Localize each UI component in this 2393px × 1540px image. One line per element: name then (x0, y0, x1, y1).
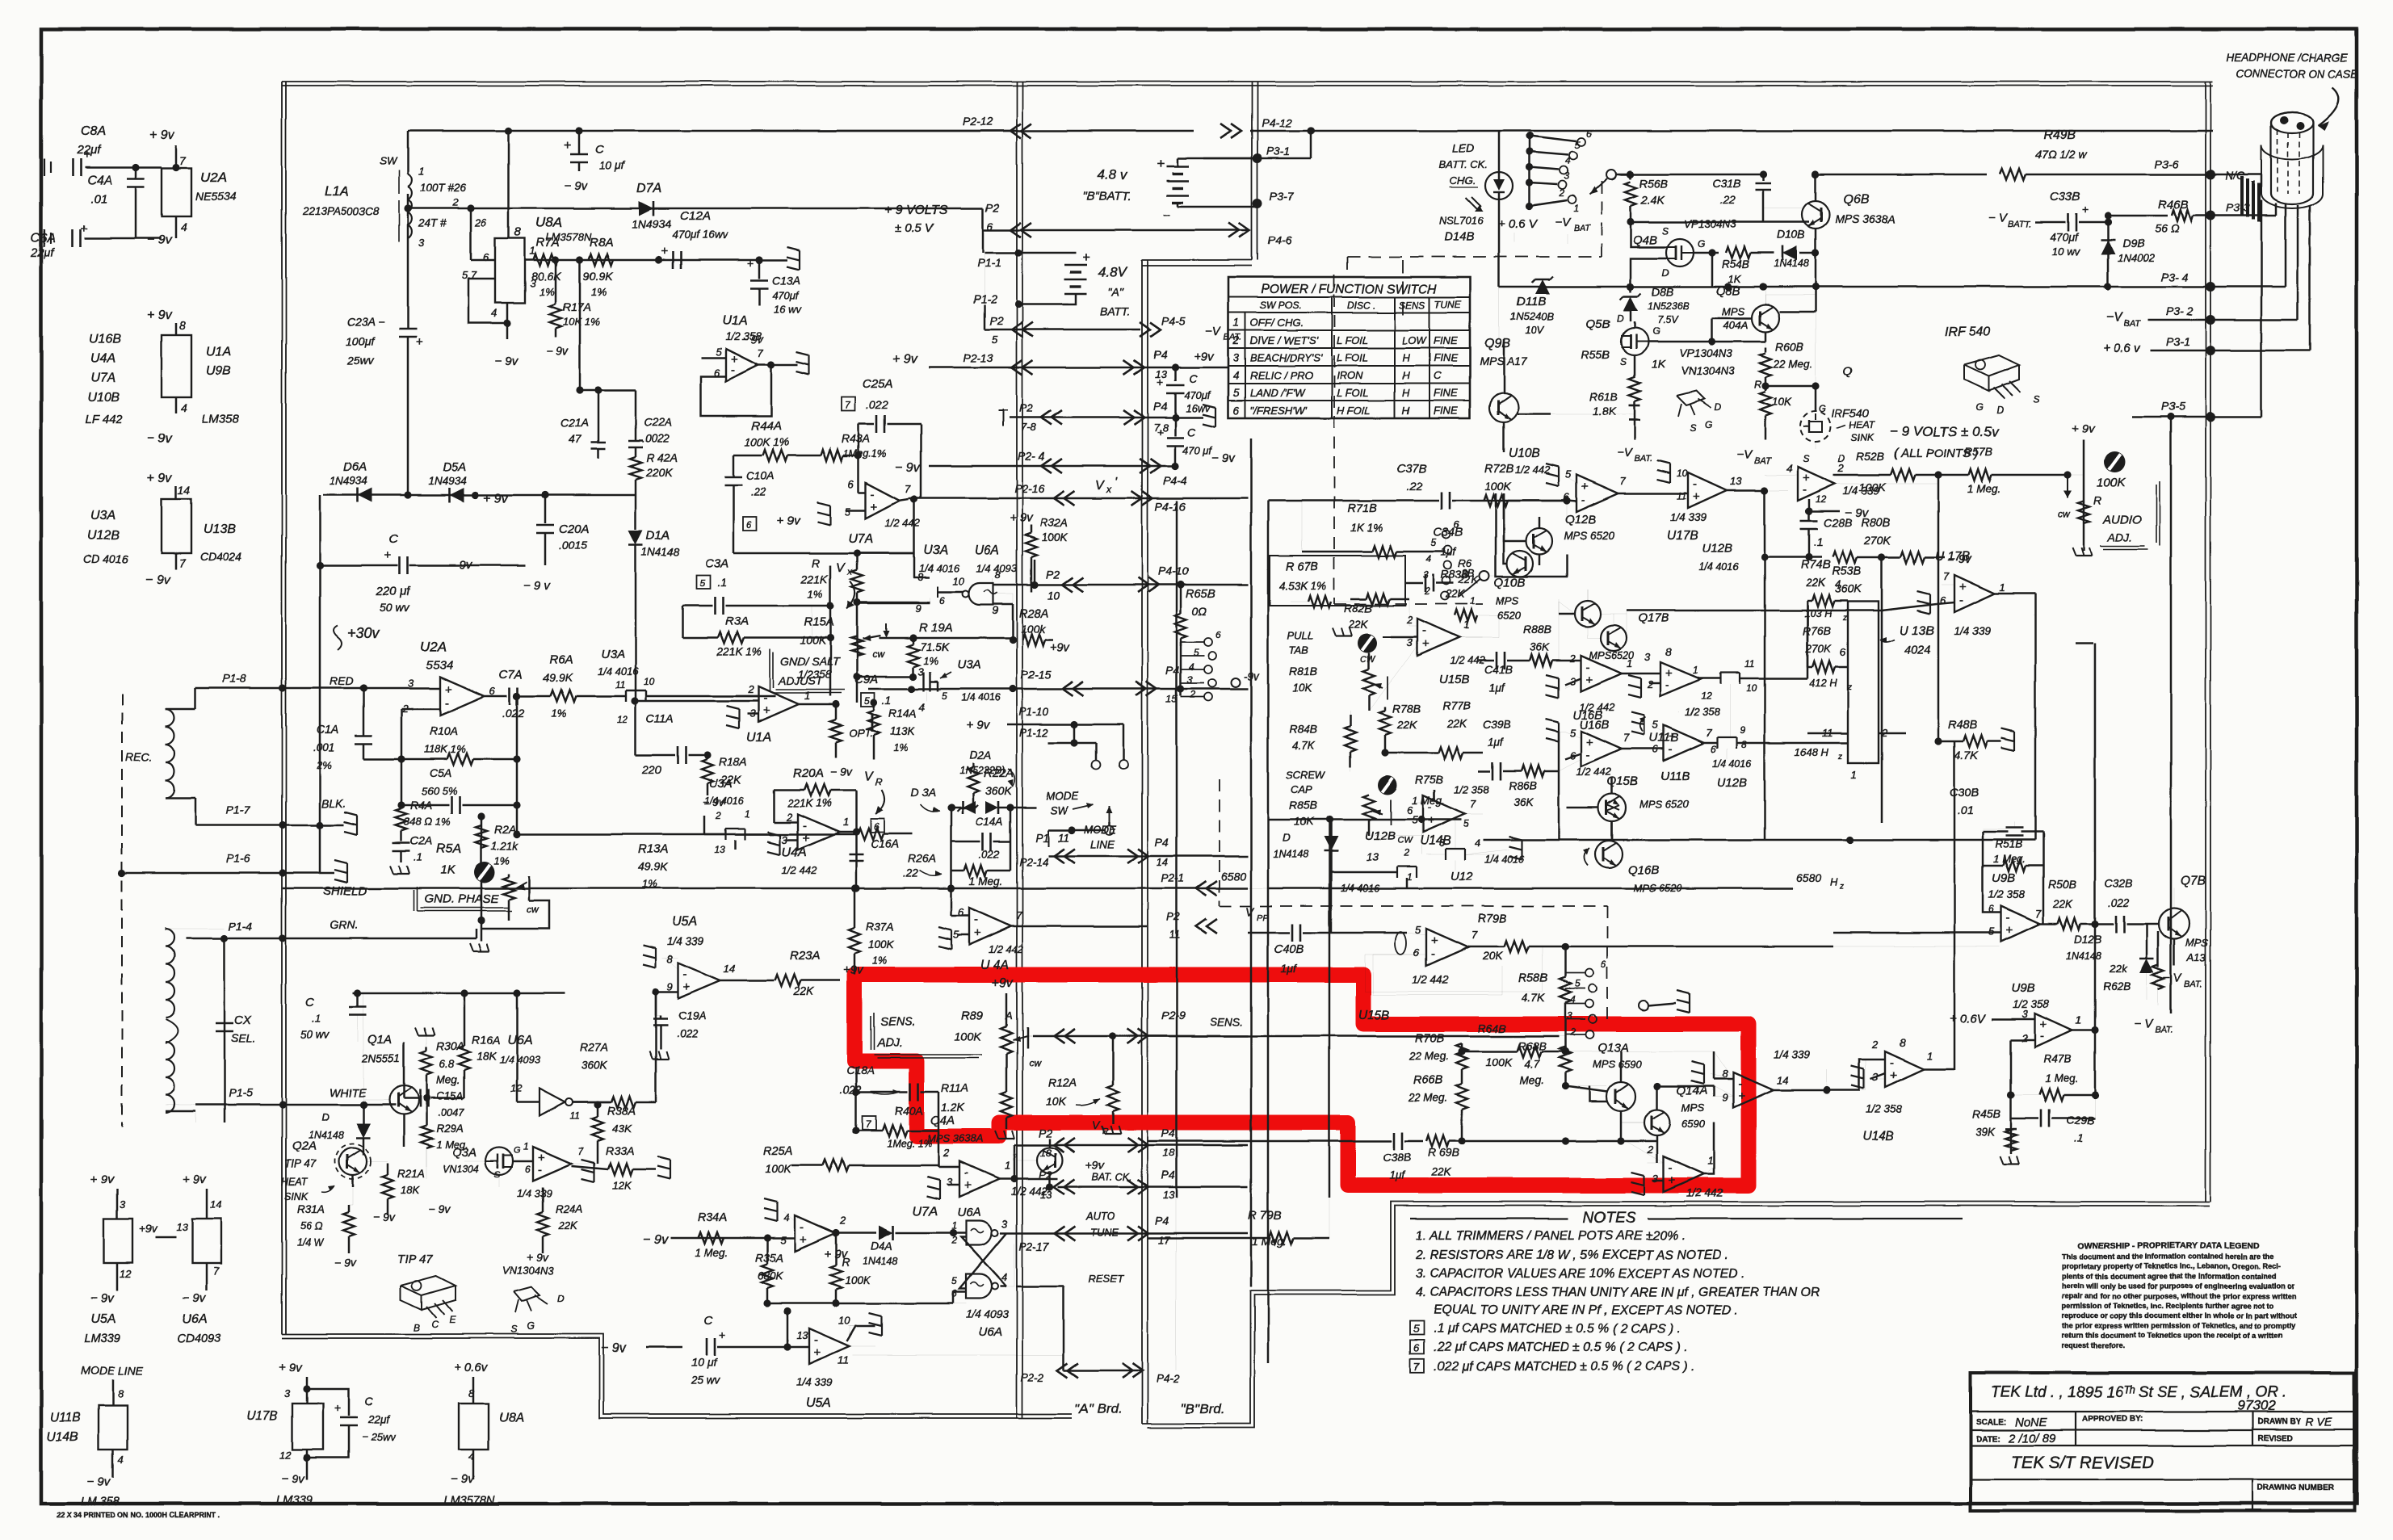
svg-text:1.8K: 1.8K (1593, 405, 1616, 418)
svg-text:ADJ.: ADJ. (876, 1037, 902, 1050)
svg-text:POWER / FUNCTION SWITCH: POWER / FUNCTION SWITCH (1262, 283, 1438, 296)
svg-text:SCREW: SCREW (1286, 769, 1326, 781)
svg-text:FINE: FINE (1434, 334, 1458, 346)
svg-text:.0047: .0047 (438, 1106, 464, 1118)
svg-text:7: 7 (1413, 1361, 1420, 1373)
svg-text:CONNECTOR ON CASE: CONNECTOR ON CASE (2236, 68, 2358, 80)
svg-text:R89: R89 (961, 1009, 984, 1022)
svg-text:100K: 100K (1484, 480, 1511, 493)
svg-text:25wv: 25wv (346, 355, 375, 367)
svg-text:13: 13 (796, 1329, 808, 1341)
svg-text:10: 10 (838, 1315, 850, 1327)
svg-text:GND/ SALT: GND/ SALT (780, 655, 840, 668)
svg-text:4.7K: 4.7K (1522, 991, 1545, 1004)
svg-text:NE5534: NE5534 (195, 190, 237, 203)
capacitor C16A (871, 819, 884, 833)
svg-text:470μf: 470μf (1184, 389, 1211, 401)
svg-text:+ 9 VOLTS: + 9 VOLTS (884, 204, 948, 217)
svg-text:R47B: R47B (2043, 1052, 2072, 1065)
svg-text:C3A: C3A (705, 556, 728, 570)
wire box edge (2076, 643, 2093, 645)
svg-text:3. CAPACITOR VALUES ARE 10: 3. CAPACITOR VALUES ARE 10% EXCEPT AS NO… (1416, 1267, 1744, 1281)
svg-text:AUDIO: AUDIO (2102, 513, 2142, 527)
svg-text:R75B: R75B (1415, 773, 1443, 786)
svg-text:Q15B: Q15B (1607, 774, 1638, 788)
transistor Q8B (1752, 304, 1779, 332)
svg-text:221K 1%: 221K 1% (787, 797, 832, 809)
wire bus v2330 (1881, 557, 1883, 823)
svg-text:+: + (1157, 426, 1163, 439)
wire bus v2688b (2170, 644, 2173, 1013)
svg-text:+ 9v: + 9v (90, 1173, 115, 1186)
svg-text:6580: 6580 (1221, 870, 1246, 883)
svg-text:3: 3 (1187, 674, 1193, 686)
svg-text:6: 6 (1413, 946, 1420, 959)
svg-text:REVISED: REVISED (2257, 1434, 2293, 1443)
svg-text:-: - (538, 1163, 542, 1177)
svg-text:412 H: 412 H (1809, 677, 1837, 689)
svg-text:6: 6 (1840, 646, 1846, 658)
svg-text:1: 1 (804, 690, 810, 702)
svg-text:-: - (1586, 748, 1590, 762)
svg-text:+: + (814, 1345, 821, 1359)
svg-text:R 67B: R 67B (1286, 560, 1319, 573)
diode D1A (635, 523, 637, 530)
svg-text:13: 13 (1163, 1189, 1175, 1201)
svg-text:S: S (494, 1170, 501, 1180)
svg-text:R79B: R79B (1478, 913, 1508, 925)
svg-text:C39B: C39B (1483, 718, 1511, 731)
svg-text:1/2 442: 1/2 442 (989, 943, 1024, 955)
svg-text:R8A: R8A (590, 236, 613, 250)
svg-text:7.5V: 7.5V (1657, 314, 1679, 325)
svg-text:C20A: C20A (559, 522, 590, 536)
svg-text:2: 2 (1569, 653, 1576, 665)
resistor R7A (534, 254, 558, 266)
svg-text:10K: 10K (1292, 682, 1312, 694)
svg-text:2: 2 (951, 1235, 957, 1246)
svg-text:7: 7 (2035, 908, 2042, 920)
svg-text:G: G (1652, 325, 1660, 337)
svg-text:22K: 22K (1446, 717, 1467, 729)
svg-text:+: + (974, 926, 981, 940)
svg-text:− 9v: − 9v (147, 432, 173, 446)
svg-text:R30A: R30A (436, 1039, 464, 1052)
capacitor C8A (72, 158, 74, 176)
svg-text:4.7K: 4.7K (1954, 749, 1978, 762)
svg-text:1: 1 (418, 165, 424, 177)
svg-text:P1-7: P1-7 (226, 804, 251, 816)
svg-text:7: 7 (179, 154, 187, 167)
svg-text:11: 11 (570, 1110, 580, 1122)
transistor Q9B (1489, 393, 1518, 422)
mosfet Q5B (1621, 328, 1648, 355)
svg-text:cw: cw (2058, 508, 2071, 519)
svg-text:5: 5 (1575, 978, 1581, 989)
svg-text:H: H (1402, 369, 1410, 381)
svg-text:100K: 100K (766, 1163, 792, 1175)
svg-text:BAT.: BAT. (1635, 454, 1653, 464)
svg-text:P1-10: P1-10 (1019, 706, 1049, 718)
svg-text:+: + (1959, 581, 1967, 594)
svg-text:P2-15: P2-15 (1021, 668, 1052, 681)
svg-text:1/2 442: 1/2 442 (1515, 464, 1551, 476)
svg-text:4: 4 (181, 220, 187, 233)
svg-text:1.21k: 1.21k (491, 840, 518, 852)
svg-text:D4A: D4A (871, 1240, 892, 1253)
svg-text:1/2358: 1/2358 (798, 669, 832, 681)
svg-text:1: 1 (745, 808, 750, 820)
svg-text:U16B: U16B (1573, 709, 1603, 722)
svg-text:P3-5: P3-5 (2161, 400, 2185, 413)
svg-text:4: 4 (1786, 462, 1792, 474)
svg-text:-: - (1422, 624, 1426, 638)
svg-text:100K: 100K (2097, 476, 2126, 489)
svg-text:IRF 540: IRF 540 (1945, 325, 1991, 339)
svg-text:.022: .022 (2108, 896, 2130, 908)
svg-text:5: 5 (864, 695, 870, 707)
svg-text:TAB: TAB (1289, 644, 1309, 657)
svg-text:270K: 270K (1863, 534, 1891, 547)
svg-text:1μf: 1μf (1281, 962, 1298, 975)
svg-text:P4-5: P4-5 (1161, 314, 1186, 327)
svg-text:.22: .22 (751, 486, 766, 498)
capacitor C5A (401, 759, 403, 805)
svg-text:1/2 358: 1/2 358 (725, 330, 762, 342)
svg-text:-: - (1669, 742, 1673, 756)
svg-text:U3A: U3A (709, 777, 733, 791)
svg-text:P4-4: P4-4 (1163, 474, 1187, 487)
svg-text:MODE LINE: MODE LINE (81, 1364, 144, 1377)
svg-text:1. ALL TRIMMERS / PANEL POTS: 1. ALL TRIMMERS / PANEL POTS ARE ±20% . (1416, 1229, 1686, 1243)
svg-text:U17B: U17B (1667, 529, 1698, 543)
svg-text:1/2 358: 1/2 358 (1685, 706, 1720, 718)
svg-text:IRF540: IRF540 (1832, 406, 1869, 419)
svg-text:103 H: 103 H (1804, 607, 1833, 619)
svg-text:DRAWING NUMBER: DRAWING NUMBER (2257, 1483, 2335, 1492)
svg-text:P3-1: P3-1 (1266, 145, 1291, 157)
svg-text:10K: 10K (1294, 816, 1314, 828)
svg-text:P2-17: P2-17 (1019, 1240, 1049, 1253)
svg-text:RED: RED (330, 674, 354, 687)
svg-text:U6A: U6A (957, 1206, 980, 1219)
svg-text:Q17B: Q17B (1638, 611, 1669, 625)
wire U8A out rail (525, 259, 759, 262)
svg-text:U12B: U12B (1702, 542, 1733, 556)
svg-text:− 9v: − 9v (564, 179, 588, 193)
svg-text:22μf: 22μf (30, 246, 56, 260)
svg-text:5: 5 (780, 1234, 787, 1246)
svg-text:OFF/ CHG.: OFF/ CHG. (1250, 317, 1304, 329)
svg-text:7: 7 (1470, 798, 1476, 810)
svg-text:HEAT: HEAT (281, 1177, 309, 1188)
package sketch small (1677, 391, 1704, 405)
svg-text:C: C (431, 1319, 439, 1330)
svg-text:24T #: 24T # (418, 217, 447, 229)
svg-text:R14A: R14A (888, 707, 917, 720)
svg-text:reproduce or copy this documen: reproduce or copy this document either i… (2062, 1311, 2296, 1320)
svg-text:C: C (365, 1395, 374, 1408)
svg-text:P4: P4 (1153, 348, 1167, 361)
svg-text:.22: .22 (1720, 194, 1736, 206)
svg-text:47Ω 1/2 w: 47Ω 1/2 w (2035, 148, 2087, 161)
svg-text:R18A: R18A (719, 755, 747, 768)
svg-text:1N4002: 1N4002 (2118, 252, 2155, 264)
svg-text:DIVE / WET'S': DIVE / WET'S' (1250, 334, 1318, 346)
svg-text:FINE: FINE (1434, 387, 1458, 399)
svg-text:+: + (1431, 934, 1438, 948)
svg-text:P2-2: P2-2 (1021, 1371, 1044, 1383)
svg-text:R11A: R11A (941, 1081, 968, 1094)
svg-text:4.8 v: 4.8 v (1097, 167, 1127, 183)
switch U12B-sw1 (1720, 672, 1740, 673)
svg-text:SHIELD: SHIELD (323, 884, 367, 898)
svg-text:−V: −V (1205, 325, 1222, 338)
svg-text:U7A: U7A (913, 1205, 938, 1219)
svg-text:+9v: +9v (1085, 1159, 1105, 1172)
svg-text:36K: 36K (1530, 641, 1550, 653)
svg-text:7: 7 (758, 347, 764, 359)
svg-text:Q16B: Q16B (1628, 863, 1659, 877)
svg-text:BATT. CK.: BATT. CK. (1439, 158, 1488, 170)
svg-text:+ 0.6 v: + 0.6 v (2103, 342, 2141, 355)
svg-text:BEACH/DRY'S': BEACH/DRY'S' (1250, 352, 1323, 364)
svg-text:U14B: U14B (1862, 1130, 1894, 1143)
svg-text:+: + (964, 1178, 972, 1192)
svg-text:3: 3 (2022, 1008, 2029, 1020)
svg-text:R56B: R56B (1639, 177, 1668, 190)
svg-text:U14B: U14B (47, 1430, 78, 1444)
svg-text:U5A: U5A (672, 915, 697, 929)
svg-text:R54B: R54B (1722, 258, 1749, 271)
svg-text:2: 2 (2021, 1032, 2029, 1044)
svg-text:4: 4 (1426, 553, 1432, 564)
svg-text:SENS.: SENS. (1210, 1016, 1243, 1028)
svg-text:1K: 1K (1652, 358, 1666, 371)
svg-text:NoNE: NoNE (2015, 1416, 2048, 1429)
svg-text:11: 11 (1058, 832, 1069, 844)
svg-text:P4-2: P4-2 (1157, 1373, 1180, 1385)
svg-text:R72B: R72B (1484, 463, 1514, 476)
svg-text:R7A: R7A (536, 236, 560, 250)
svg-text:P4: P4 (1155, 836, 1169, 849)
svg-text:− 9v: − 9v (546, 345, 569, 358)
svg-text:.0022: .0022 (642, 433, 670, 445)
svg-text:6: 6 (1233, 405, 1240, 417)
svg-text:R20A: R20A (793, 766, 824, 780)
svg-text:cw: cw (1029, 1057, 1042, 1068)
svg-text:6: 6 (1586, 128, 1592, 140)
svg-text:LED: LED (1452, 141, 1474, 154)
svg-text:U1A: U1A (722, 314, 747, 328)
svg-text:S: S (1620, 356, 1627, 367)
svg-text:U10B: U10B (87, 391, 120, 405)
svg-text:U3A: U3A (957, 658, 980, 672)
svg-text:8: 8 (667, 953, 674, 965)
svg-text:C8A: C8A (81, 124, 106, 138)
svg-text:10: 10 (1677, 468, 1688, 479)
svg-text:14: 14 (178, 484, 191, 497)
svg-text:TIP 47: TIP 47 (284, 1158, 317, 1170)
svg-text:BATT.: BATT. (2008, 220, 2031, 229)
svg-text:.022 μf CAPS MATCHED ± 0.5 %: .022 μf CAPS MATCHED ± 0.5 % ( 2 CAPS ) … (1434, 1360, 1694, 1374)
svg-text:D14B: D14B (1444, 230, 1475, 244)
svg-text:7: 7 (1016, 909, 1022, 921)
capacitor C14A (951, 808, 953, 871)
svg-text:50 wv: 50 wv (300, 1029, 330, 1041)
svg-text:G: G (1698, 238, 1705, 250)
svg-text:S: S (1803, 453, 1809, 464)
svg-text:R27A: R27A (580, 1041, 608, 1054)
svg-text:1: 1 (1627, 657, 1632, 669)
svg-text:R38A: R38A (607, 1104, 636, 1117)
svg-text:U9B: U9B (206, 364, 231, 378)
svg-text:1/4 4016: 1/4 4016 (919, 562, 960, 574)
svg-text:x: x (1106, 484, 1112, 495)
svg-text:− 9v: − 9v (451, 1472, 475, 1486)
svg-text:7: 7 (1620, 475, 1627, 487)
svg-text:NSL7016: NSL7016 (1439, 215, 1484, 227)
svg-text:1/4 339: 1/4 339 (1774, 1048, 1811, 1060)
svg-text:P1-4: P1-4 (229, 920, 253, 933)
svg-text:"/FRESH'W': "/FRESH'W' (1250, 405, 1307, 417)
node P3-1 top (1310, 131, 1312, 158)
label -9v c28b (1808, 499, 1811, 511)
svg-text:1: 1 (1573, 203, 1579, 214)
svg-text:1/2 358: 1/2 358 (1454, 783, 1489, 795)
svg-text:LM358: LM358 (202, 413, 240, 426)
ic U13B box (1848, 602, 1879, 763)
led D14B (1485, 172, 1513, 199)
svg-text:4: 4 (1475, 837, 1480, 849)
svg-text:R: R (812, 556, 820, 569)
svg-text:BATT.: BATT. (1100, 304, 1130, 317)
nand U6A-3 (966, 1274, 992, 1299)
svg-text:C34B: C34B (1434, 527, 1463, 539)
resistor R13A (517, 833, 854, 836)
svg-text:2N5551: 2N5551 (361, 1052, 400, 1064)
svg-text:R55B: R55B (1581, 348, 1610, 361)
svg-text:C28B: C28B (1824, 516, 1852, 529)
rotary switch B1 (1442, 531, 1450, 539)
svg-text:P3-1: P3-1 (2166, 335, 2190, 348)
svg-text:± 0.5 V: ± 0.5 V (895, 221, 934, 235)
svg-text:2. RESISTORS ARE 1/8 W , 5%: 2. RESISTORS ARE 1/8 W , 5% EXCEPT AS NO… (1415, 1248, 1728, 1262)
svg-text:G: G (1819, 403, 1826, 414)
svg-text:R62B: R62B (2103, 980, 2131, 992)
svg-text:R: R (875, 776, 883, 787)
svg-text:− 9v: − 9v (334, 1256, 357, 1269)
svg-text:MPS 3638A: MPS 3638A (1835, 212, 1896, 225)
svg-text:1%: 1% (808, 588, 823, 600)
svg-text:LM339: LM339 (276, 1494, 312, 1507)
svg-text:− 9v: − 9v (90, 1291, 115, 1305)
svg-text:22K: 22K (792, 984, 814, 997)
svg-text:P2-1: P2-1 (1161, 872, 1185, 884)
svg-text:P3- 2: P3- 2 (2166, 304, 2194, 317)
svg-text:1K: 1K (440, 863, 456, 877)
svg-text:P2: P2 (989, 314, 1003, 327)
svg-text:11: 11 (615, 679, 625, 690)
svg-text:S: S (1662, 225, 1669, 237)
svg-text:HEADPHONE /CHARGE: HEADPHONE /CHARGE (2226, 52, 2349, 64)
svg-text:H: H (1402, 405, 1410, 417)
svg-text:.022: .022 (677, 1027, 699, 1039)
svg-text:1: 1 (2076, 1014, 2081, 1026)
svg-text:3: 3 (1644, 651, 1651, 663)
svg-text:R35A: R35A (755, 1251, 783, 1264)
red highlight outline (854, 975, 1749, 1185)
svg-text:P4-10: P4-10 (1158, 564, 1189, 577)
svg-text:G: G (1975, 401, 1983, 413)
svg-text:This document and the informat: This document and the information contai… (2062, 1253, 2273, 1261)
svg-text:z: z (1842, 614, 1847, 623)
resistor R60B (1765, 347, 1767, 352)
svg-text:MODE: MODE (1046, 790, 1079, 802)
svg-text:2: 2 (1190, 689, 1196, 700)
svg-text:Q4A: Q4A (930, 1114, 955, 1127)
svg-text:R58B: R58B (1518, 972, 1548, 985)
svg-text:3: 3 (284, 1387, 291, 1399)
svg-text:470 μf: 470 μf (1182, 444, 1212, 456)
switch U12B-sw2 (1717, 736, 1736, 738)
inner frame A-board bottom staircase (282, 1334, 1072, 1414)
svg-text:348 Ω 1%: 348 Ω 1% (404, 816, 451, 828)
svg-text:D11B: D11B (1517, 295, 1546, 308)
svg-text:G: G (514, 1146, 521, 1156)
svg-text:P4-16: P4-16 (1155, 500, 1186, 513)
resistor R4A (396, 808, 407, 831)
svg-text:1.2K: 1.2K (941, 1101, 964, 1114)
svg-text:P1-6: P1-6 (226, 852, 250, 865)
svg-text:DISC .: DISC . (1347, 300, 1375, 311)
svg-text:1N4934: 1N4934 (428, 475, 466, 487)
svg-text:22 Meg.: 22 Meg. (1408, 1092, 1448, 1104)
svg-text:90.9K: 90.9K (583, 270, 613, 283)
svg-text:+: + (1693, 489, 1700, 503)
svg-text:Q2A: Q2A (292, 1139, 317, 1153)
svg-text:5: 5 (1652, 719, 1659, 731)
svg-text:SENS.: SENS. (880, 1016, 916, 1029)
svg-text:1K: 1K (1728, 273, 1742, 285)
svg-text:22K: 22K (1396, 719, 1417, 731)
svg-text:L1A: L1A (325, 183, 349, 199)
svg-text:D8B: D8B (1652, 285, 1673, 298)
svg-text:1/4 4093: 1/4 4093 (499, 1053, 540, 1065)
resistor R37A (849, 928, 860, 954)
svg-text:220 μf: 220 μf (376, 585, 411, 598)
transistor Q17B grp (1575, 601, 1601, 627)
svg-text:1N4148: 1N4148 (1273, 849, 1308, 860)
svg-text:R70B: R70B (1415, 1032, 1445, 1045)
svg-text:0Ω: 0Ω (1192, 605, 1207, 618)
svg-text:+ 9v: + 9v (2072, 422, 2096, 436)
svg-text:1N5236B: 1N5236B (1648, 300, 1690, 312)
dashed boundary mid (1333, 275, 1335, 604)
svg-text:D5A: D5A (443, 460, 466, 474)
svg-text:2: 2 (715, 810, 721, 821)
svg-text:R6A: R6A (549, 653, 573, 667)
svg-text:U8A: U8A (499, 1411, 524, 1425)
svg-text:− V: − V (1988, 212, 2009, 225)
svg-text:− 9v: − 9v (147, 233, 173, 247)
svg-text:z: z (1837, 753, 1842, 762)
svg-text:+: + (1586, 673, 1593, 686)
svg-text:13: 13 (1367, 851, 1379, 863)
svg-text:BAT: BAT (1754, 456, 1772, 466)
svg-text:C: C (389, 532, 398, 546)
svg-text:C11A: C11A (646, 711, 674, 724)
